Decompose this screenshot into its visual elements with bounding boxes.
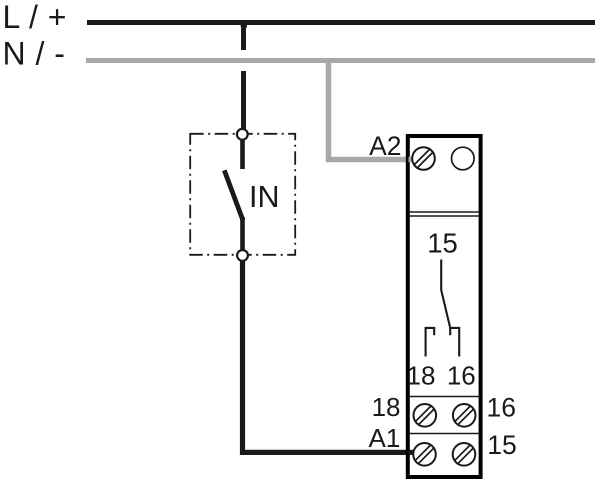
wire stub: grey into A2 screw [409, 157, 413, 163]
terminal screw 18 [414, 404, 437, 427]
divider: above 18/16 terminal row [410, 396, 479, 398]
relay module U1 outline [408, 136, 481, 477]
svg-text:15: 15 [487, 430, 516, 460]
svg-text:16: 16 [447, 361, 476, 391]
contact common lead [440, 260, 442, 291]
svg-text:A2: A2 [369, 131, 401, 161]
wire: switch to A1 terminal [243, 260, 411, 452]
switch pole top lead [240, 140, 245, 169]
terminal screw A1 [413, 443, 436, 466]
switch enclosure (dash-dot box) [190, 134, 295, 255]
terminal screw A2 [412, 147, 435, 170]
terminal screw 16 [453, 404, 476, 427]
contact 16 fixed terminal (bracket) [450, 328, 459, 357]
node: switch top terminal [237, 129, 248, 140]
terminal hole (unused, top right) [452, 147, 475, 170]
divider: between 18/16 and A1/15 rows [410, 433, 479, 435]
divider: below top terminal block (double line) [410, 211, 479, 213]
junction dot on L bus [241, 23, 247, 29]
svg-text:15: 15 [427, 228, 458, 259]
wire: drop from L bus, lower segment to switch [241, 71, 246, 131]
svg-text:N / -: N / - [3, 36, 66, 72]
switch blade [224, 170, 243, 220]
node: switch bottom terminal [237, 250, 248, 261]
wire: N bus (grey) [86, 58, 595, 63]
switch pole bottom lead [240, 217, 245, 251]
svg-text:A1: A1 [368, 423, 400, 453]
terminal screw 15 [453, 443, 476, 466]
svg-text:L / +: L / + [3, 0, 67, 35]
wire: drop from L bus, upper segment [241, 20, 246, 50]
wire: L bus [87, 20, 595, 25]
svg-text:IN: IN [249, 180, 280, 214]
svg-text:18: 18 [372, 392, 401, 422]
svg-text:18: 18 [407, 361, 436, 391]
wire stub: black into A1 screw [409, 450, 415, 455]
contact moving blade [441, 290, 450, 327]
contact 18 fixed terminal (bracket) [426, 328, 435, 357]
svg-text:16: 16 [487, 393, 516, 423]
wire: grey drop from N bus to A2 [329, 61, 413, 160]
